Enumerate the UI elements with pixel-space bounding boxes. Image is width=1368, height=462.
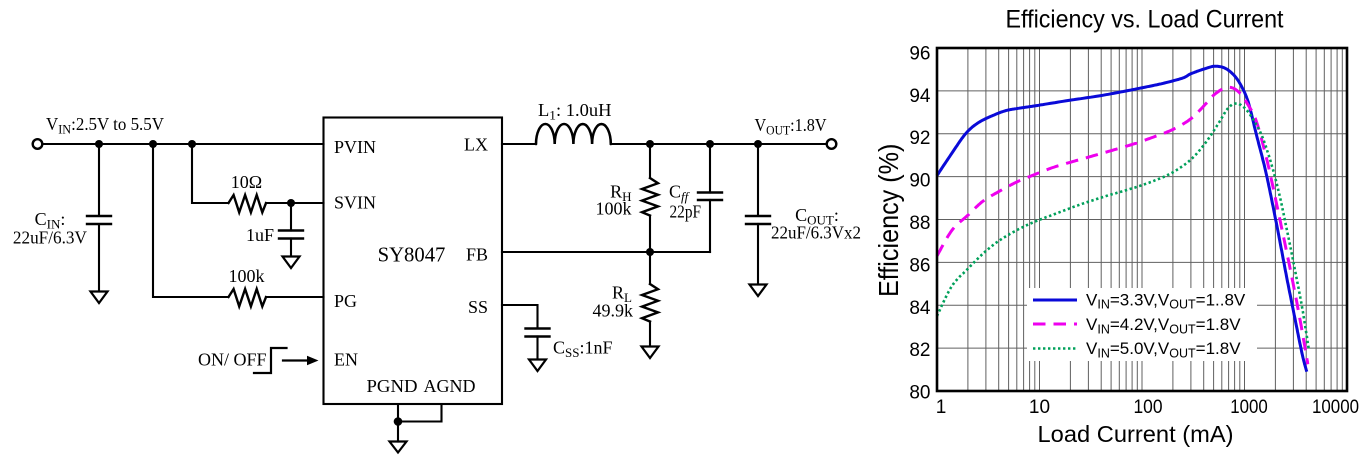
svg-text:84: 84 [909, 298, 931, 319]
label ON/OFF control [198, 350, 267, 370]
label 1uF value [246, 225, 274, 245]
capacitor CSS 1nF (soft-start) [526, 329, 550, 360]
svg-text:L1: 1.0uH: L1: 1.0uH [538, 100, 612, 123]
label L1 value [538, 100, 612, 123]
svg-text:90: 90 [909, 171, 930, 192]
legend sample line VIN=5.0V [1033, 347, 1077, 350]
svg-text:VOUT:1.8V: VOUT:1.8V [755, 115, 827, 138]
wire FB pin to feedback node [502, 251, 710, 253]
ground for 1uF capacitor [283, 257, 300, 269]
label Cff reference [669, 182, 691, 205]
junction at RH node on output rail [646, 140, 654, 148]
chart curve VIN=4.2V (magenta dashed) [937, 87, 1308, 364]
label CIN reference and value [13, 209, 87, 248]
chart title [1006, 6, 1284, 34]
chart gridlines [937, 48, 1347, 391]
node label VOUT value [755, 115, 827, 138]
legend entry text VIN=3.3V [1086, 290, 1246, 311]
EN step waveform symbol (ON/OFF control) [254, 348, 287, 373]
svg-text:82: 82 [909, 340, 930, 361]
svg-text:22uF/6.3V: 22uF/6.3V [13, 228, 87, 248]
junction at 1uF capacitor node on SVIN wire [287, 199, 295, 207]
chart x axis tick labels [936, 397, 1359, 418]
wire PGND node down to ground symbol [397, 422, 399, 442]
svg-text:100k: 100k [229, 266, 265, 286]
svg-text:LX: LX [464, 135, 488, 155]
label RL value 49.9k [593, 301, 634, 321]
svg-text:86: 86 [909, 255, 930, 276]
svg-text:100k: 100k [596, 199, 632, 219]
svg-text:SY8047: SY8047 [378, 245, 446, 267]
chart curve VIN=3.3V (blue solid) [937, 66, 1307, 372]
chart y axis tick labels [909, 43, 931, 403]
svg-text:VIN=5.0V,VOUT=1.8V: VIN=5.0V,VOUT=1.8V [1086, 339, 1241, 360]
wire SVIN branch: down from input rail and right to 10 ohm resistor [192, 144, 229, 203]
svg-text:SS: SS [468, 297, 488, 317]
svg-text:92: 92 [909, 128, 930, 149]
wire 10 ohm resistor to SVIN pin [266, 202, 324, 204]
ground for RL [642, 347, 659, 359]
node label VIN value [46, 114, 164, 137]
ground for PGND/AGND [390, 442, 407, 453]
resistor R2 100k (PG pull-up) [229, 289, 267, 306]
svg-text:Load Current (mA): Load Current (mA) [1038, 421, 1234, 447]
junction at Cff node on output rail [706, 140, 714, 148]
svg-text:FB: FB [466, 245, 488, 265]
pin label AGND [424, 376, 476, 396]
svg-text:94: 94 [909, 86, 931, 107]
chart plot frame [937, 48, 1347, 391]
svg-text:1: 1 [936, 397, 947, 418]
svg-text:96: 96 [909, 43, 930, 64]
inductor L1 1.0uH [536, 124, 611, 144]
pin label EN [334, 350, 358, 370]
output terminal VOUT [827, 139, 837, 149]
svg-text:PGND: PGND [367, 376, 418, 396]
junction at PGND ground node [394, 417, 403, 426]
svg-text:PVIN: PVIN [334, 137, 376, 157]
svg-text:22pF: 22pF [670, 202, 702, 222]
legend sample line VIN=4.2V [1033, 323, 1077, 326]
ground for CIN [91, 292, 108, 304]
ground for CSS [529, 360, 546, 372]
svg-text:Efficiency vs. Load Current: Efficiency vs. Load Current [1006, 6, 1284, 34]
wire inductor to VOUT terminal [611, 143, 826, 145]
legend sample line VIN=3.3V [1033, 299, 1077, 302]
op IC U1 SY8047 body [324, 118, 503, 405]
svg-text:CSS:1nF: CSS:1nF [553, 338, 613, 361]
svg-text:AGND: AGND [424, 376, 476, 396]
junction FB node at RH/RL [646, 248, 654, 256]
svg-text:10Ω: 10Ω [231, 172, 262, 192]
capacitor C2 1uF (SVIN decoupling) [279, 203, 303, 256]
junction at COUT node on output rail [754, 140, 762, 148]
legend entry text VIN=4.2V [1086, 315, 1241, 336]
svg-text:Efficiency (%): Efficiency (%) [873, 144, 904, 297]
svg-text:VIN=4.2V,VOUT=1.8V: VIN=4.2V,VOUT=1.8V [1086, 315, 1241, 336]
svg-text:1uF: 1uF [246, 225, 274, 245]
capacitor Cff 22pF (feed-forward) [698, 144, 722, 252]
pin label PGND [367, 376, 418, 396]
wire LX pin to inductor [502, 143, 536, 145]
svg-text:10: 10 [1029, 397, 1050, 418]
pin label SVIN [334, 193, 376, 213]
svg-text:10000: 10000 [1312, 397, 1359, 418]
wire 100k resistor to PG pin [266, 296, 324, 298]
resistor R1 10 ohm (series SVIN filter) [229, 195, 267, 212]
svg-text:SVIN: SVIN [334, 193, 376, 213]
label 100k value [229, 266, 265, 286]
label RH reference [610, 182, 631, 205]
legend entry text VIN=5.0V [1086, 339, 1241, 360]
junction at PG branch on input rail [149, 140, 157, 148]
svg-text:ON/ OFF: ON/ OFF [198, 350, 267, 370]
label RL reference [612, 283, 632, 306]
pin label PG [334, 291, 357, 311]
resistor RL 49.9k (lower feedback divider) [642, 252, 658, 346]
svg-text:EN: EN [334, 350, 358, 370]
wire PGND pin to ground rail [398, 404, 442, 422]
svg-text:100: 100 [1134, 397, 1163, 418]
wire SS pin to soft-start capacitor [502, 305, 538, 329]
capacitor CIN 22uF/6.3V (input) [87, 144, 111, 291]
label COUT reference and value [771, 205, 861, 243]
resistor RH 100k (upper feedback divider) [642, 144, 658, 252]
legend background [1027, 288, 1257, 361]
label Cff value 22pF [670, 202, 702, 222]
svg-text:80: 80 [909, 383, 930, 404]
part number label SY8047 [378, 245, 446, 267]
svg-text:VIN:2.5V to 5.5V: VIN:2.5V to 5.5V [46, 114, 164, 137]
svg-text:PG: PG [334, 291, 357, 311]
label CSS value [553, 338, 613, 361]
wire PG branch: down from input rail and right to 100k pull-up resistor [153, 144, 229, 297]
ground for COUT [750, 285, 767, 297]
pin label FB [466, 245, 488, 265]
label RH value 100k [596, 199, 632, 219]
svg-text:49.9k: 49.9k [593, 301, 634, 321]
chart curve VIN=5.0V (green dotted) [937, 104, 1309, 351]
chart y axis label [873, 144, 904, 297]
svg-text:88: 88 [909, 213, 930, 234]
pin label PVIN [334, 137, 376, 157]
svg-text:VIN=3.3V,VOUT=1..8V: VIN=3.3V,VOUT=1..8V [1086, 290, 1246, 311]
svg-text:1000: 1000 [1230, 397, 1268, 418]
svg-text:22uF/6.3Vx2: 22uF/6.3Vx2 [771, 223, 861, 243]
capacitor COUT 22uF/6.3Vx2 (output) [746, 144, 770, 284]
input terminal VIN [33, 139, 43, 149]
junction at CIN on input rail [95, 140, 103, 148]
chart x axis label [1038, 421, 1234, 447]
EN arrow into EN pin [283, 356, 319, 366]
pin label SS [468, 297, 488, 317]
pin label LX [464, 135, 488, 155]
label 10 ohm value [231, 172, 262, 192]
junction at SVIN branch on input rail [188, 140, 196, 148]
wire VIN terminal to PVIN pin [43, 143, 324, 145]
